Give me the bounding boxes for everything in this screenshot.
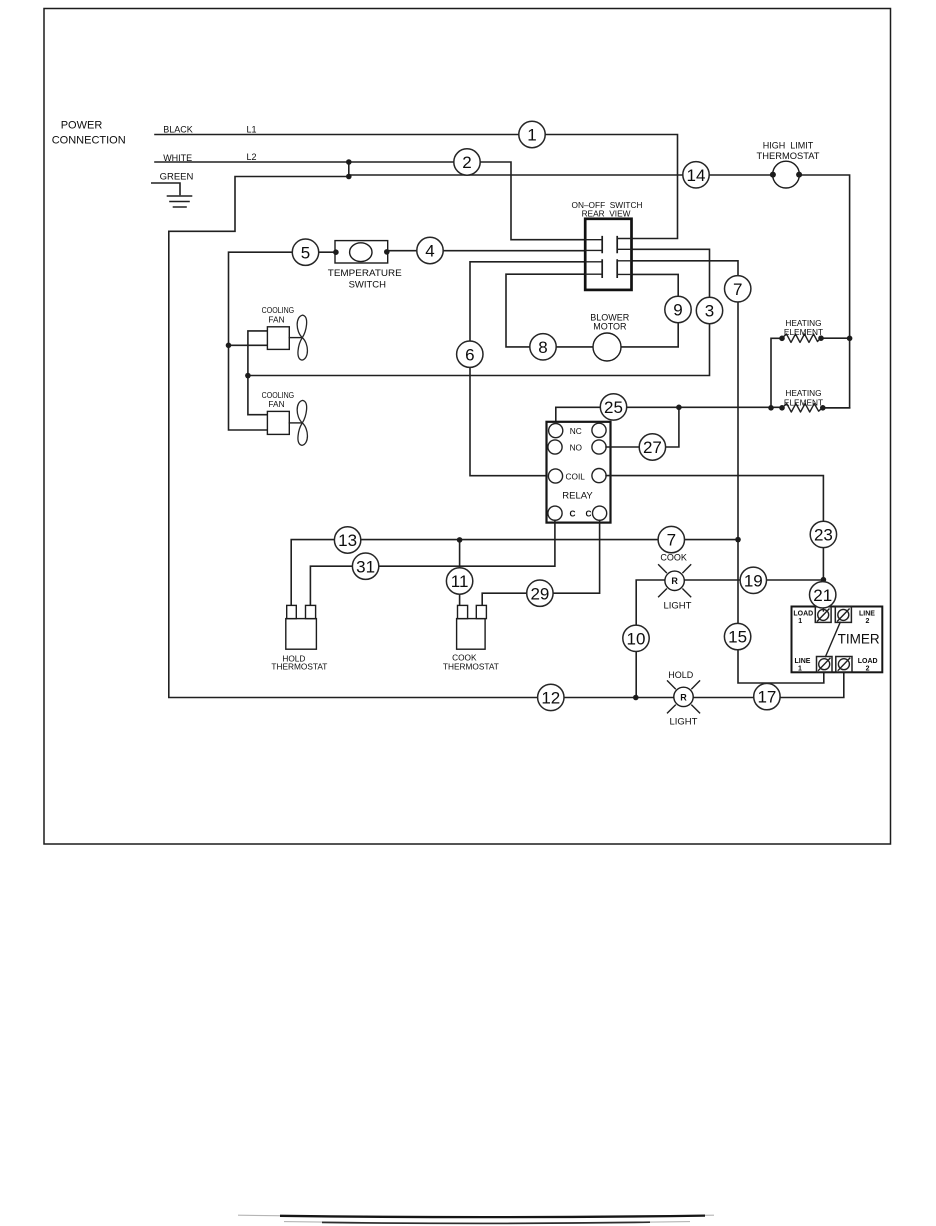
svg-text:LIGHT: LIGHT <box>670 717 698 728</box>
node high limit left terminal <box>770 172 776 178</box>
svg-text:23: 23 <box>814 526 833 545</box>
svg-text:BLACK: BLACK <box>163 125 193 135</box>
wire cooling fan 1 lower lead <box>229 344 268 346</box>
heating element top right lead <box>821 337 850 339</box>
svg-text:27: 27 <box>643 438 662 457</box>
svg-text:TIMER: TIMER <box>838 632 880 647</box>
svg-text:HIGH LIMIT: HIGH LIMIT <box>763 140 814 150</box>
wire cook thermostat left feed through circle 11 <box>459 540 461 605</box>
wire green lead <box>152 183 180 195</box>
callout 4 <box>417 237 443 263</box>
svg-text:21: 21 <box>813 586 832 605</box>
timer screw terminal line1 <box>817 657 833 673</box>
node fan1 tap <box>226 343 232 349</box>
svg-text:RELAY: RELAY <box>562 491 593 502</box>
on-off switch contact stubs <box>586 239 632 275</box>
node heating left rail junction <box>768 405 774 411</box>
callout 31 <box>352 553 378 579</box>
svg-text:SWITCH: SWITCH <box>349 279 387 290</box>
svg-text:10: 10 <box>627 629 646 648</box>
node heating top left terminal <box>779 336 785 342</box>
svg-text:TEMPERATURE: TEMPERATURE <box>328 268 402 279</box>
svg-text:LOAD: LOAD <box>858 658 878 665</box>
node hold light branch junction <box>633 695 639 701</box>
cooling fan 2 propeller <box>297 400 307 445</box>
svg-text:8: 8 <box>538 338 547 357</box>
node heating bottom right terminal <box>820 405 826 411</box>
node timer load1 branch junction <box>821 577 827 583</box>
svg-text:1: 1 <box>798 618 802 625</box>
heating element left rail <box>771 338 782 408</box>
svg-text:COIL: COIL <box>566 471 586 481</box>
cook thermostat terminal right <box>476 605 486 618</box>
svg-text:19: 19 <box>744 571 763 590</box>
hold indicator light lamp <box>674 687 693 706</box>
heating element bottom right lead <box>823 407 850 409</box>
node x738 junction <box>735 537 741 543</box>
callout 21 <box>810 582 836 608</box>
svg-text:13: 13 <box>338 531 357 550</box>
svg-text:17: 17 <box>757 688 776 707</box>
wire neutral branch left down to bottom run and up to timer load2 <box>169 177 844 698</box>
callout 11 <box>446 568 472 594</box>
temperature switch box <box>335 241 388 263</box>
node temp switch right terminal <box>384 249 390 255</box>
svg-text:GREEN: GREEN <box>160 172 194 183</box>
node L2 upper junction <box>346 159 352 165</box>
cook thermostat body <box>457 619 486 650</box>
cook thermostat terminal left <box>458 605 468 618</box>
svg-text:L2: L2 <box>246 152 256 162</box>
svg-text:7: 7 <box>733 280 742 299</box>
on-off switch pole bars <box>602 236 617 278</box>
frame border <box>44 9 891 845</box>
scan artifact line upper faint <box>238 1215 714 1217</box>
relay terminal NC left <box>549 424 563 438</box>
svg-text:9: 9 <box>673 301 682 320</box>
node temp switch left terminal <box>333 249 339 255</box>
svg-text:5: 5 <box>301 243 310 262</box>
callout 15 <box>724 623 750 649</box>
wire neutral right to high limit thermostat and heating element right rail <box>349 175 850 408</box>
wire switch row4 left down to blower motor left via circle 8 <box>506 274 593 347</box>
svg-text:29: 29 <box>530 584 549 603</box>
svg-text:15: 15 <box>728 628 747 647</box>
relay terminal C left <box>548 506 562 520</box>
callout 7 top <box>725 276 751 302</box>
timer screw terminal load2 <box>836 657 852 673</box>
callout 9 <box>665 296 691 322</box>
svg-text:3: 3 <box>705 302 714 321</box>
scan artifact line lower faint <box>284 1222 690 1223</box>
high limit thermostat disc <box>773 161 800 188</box>
callout 8 <box>530 334 556 360</box>
svg-text:LOAD: LOAD <box>793 611 813 618</box>
wire L2 white line to switch row1 left <box>155 162 586 240</box>
svg-text:NO: NO <box>570 442 583 452</box>
relay terminal COIL right <box>592 469 606 483</box>
svg-text:FAN: FAN <box>268 399 284 409</box>
wire switch row3 right down through circle 7 circle 15 to timer line1 <box>632 261 824 683</box>
svg-text:NC: NC <box>570 426 582 436</box>
svg-text:2: 2 <box>865 618 869 625</box>
callout 1 <box>519 121 545 147</box>
svg-text:THERMOSTAT: THERMOSTAT <box>757 151 821 161</box>
wire cooling fan 1 upper lead down to fan 2 upper lead <box>248 331 268 415</box>
svg-text:4: 4 <box>425 242 434 261</box>
svg-text:2: 2 <box>866 665 870 672</box>
svg-text:12: 12 <box>541 689 560 708</box>
svg-text:COOK: COOK <box>660 553 687 563</box>
resistor heating element bottom <box>782 404 823 412</box>
svg-text:MOTOR: MOTOR <box>593 321 627 331</box>
hold indicator light rays <box>668 681 700 713</box>
svg-text:LIGHT: LIGHT <box>664 601 692 612</box>
svg-text:THERMOSTAT: THERMOSTAT <box>443 662 499 672</box>
callout 12 <box>538 684 564 710</box>
svg-text:11: 11 <box>451 572 469 591</box>
wire switch row4 right down through circle 9 to blower motor right <box>621 274 678 347</box>
cooling fan 2 box <box>267 411 289 434</box>
svg-text:WHITE: WHITE <box>163 153 192 163</box>
wire relay C left down through circle 31 to hold thermostat right <box>310 520 555 605</box>
callout 3 <box>696 297 722 323</box>
svg-text:2: 2 <box>462 153 471 172</box>
svg-text:R: R <box>671 576 678 586</box>
resistor heating element top <box>782 334 821 342</box>
cooling fan 1 box <box>267 327 289 350</box>
node heating right rail junction <box>847 336 853 342</box>
wire hold thermostat left feed through circle 13 to node at x738 <box>291 540 738 606</box>
callout 25 <box>600 394 626 420</box>
svg-text:C: C <box>570 509 576 519</box>
svg-text:HOLD: HOLD <box>668 670 694 680</box>
callout 10 <box>623 625 649 651</box>
svg-text:31: 31 <box>356 557 375 576</box>
callout 29 <box>527 580 553 606</box>
ground symbol <box>168 196 192 207</box>
wire relay NC up to circle 25 run and heating elements left rail <box>556 407 782 422</box>
svg-text:6: 6 <box>465 345 474 364</box>
callout 27 <box>639 434 665 460</box>
relay terminal C right <box>593 506 607 520</box>
wire relay COIL right to circle 23 circle 21 timer load1 <box>606 476 823 611</box>
cooling fan 1 hub stub <box>289 337 302 339</box>
wire L1 black line to switch row1 right <box>155 135 678 239</box>
relay terminal COIL left <box>548 469 562 483</box>
node L2 lower junction <box>346 174 352 180</box>
svg-text:1: 1 <box>798 665 802 672</box>
callout 5 <box>292 239 318 265</box>
node high limit right terminal <box>796 172 802 178</box>
temperature switch disc <box>350 243 372 262</box>
wire relay C right down through circle 29 to cook thermostat right <box>482 520 599 605</box>
cook indicator light lamp <box>665 571 684 590</box>
timer internal diagonal line2 to line1 <box>826 622 841 656</box>
callout 7 cook <box>658 526 684 552</box>
callout 17 <box>754 683 780 709</box>
svg-text:1: 1 <box>527 126 536 145</box>
callout 23 <box>810 521 836 547</box>
svg-text:CONNECTION: CONNECTION <box>52 135 126 147</box>
wire switch row2 right down through circle 3 and long run at y375 <box>248 249 710 375</box>
relay box <box>547 422 611 523</box>
hold thermostat terminal right <box>306 605 316 618</box>
callout 14 <box>683 162 709 188</box>
on-off switch box <box>585 219 631 290</box>
svg-text:C: C <box>586 509 592 519</box>
timer screw terminal load1 <box>815 607 831 623</box>
cooling fan 2 hub stub <box>289 422 302 424</box>
scan artifact line upper dark <box>280 1216 705 1218</box>
relay terminal NO left <box>548 440 562 454</box>
svg-text:LINE: LINE <box>795 658 811 665</box>
cook indicator light rays <box>659 565 691 597</box>
callout 19 <box>740 567 766 593</box>
wire relay NO right to circle 27 up to node <box>606 407 679 447</box>
scan artifact line lower dark <box>322 1222 650 1223</box>
callout 2 <box>454 149 480 175</box>
wire switch row3 left down through circle 6 to relay coil left <box>470 262 586 476</box>
svg-text:POWER: POWER <box>61 120 103 132</box>
svg-text:FAN: FAN <box>268 314 284 324</box>
relay terminal NC right <box>592 423 606 437</box>
svg-text:L1: L1 <box>246 125 256 135</box>
relay terminal NO right <box>592 440 606 454</box>
svg-text:ELEMENT: ELEMENT <box>784 327 823 337</box>
svg-text:THERMOSTAT: THERMOSTAT <box>271 662 327 672</box>
hold thermostat body <box>286 619 317 650</box>
wire cook light left down through circle 10 to bottom run <box>636 580 823 698</box>
svg-text:7: 7 <box>667 531 676 550</box>
wire stub into timer load1 screw <box>822 606 824 611</box>
wire neutral stub between junction dots <box>348 162 350 177</box>
node NO-NC junction <box>676 405 682 411</box>
svg-text:R: R <box>680 692 687 702</box>
wire left rail to temperature switch and cooling fans <box>229 252 336 430</box>
timer box <box>792 607 883 673</box>
node heating bottom left terminal <box>779 405 785 411</box>
timer screw terminal line2 <box>835 607 851 623</box>
svg-text:LINE: LINE <box>859 611 875 618</box>
svg-text:14: 14 <box>687 166 706 185</box>
cooling fan 1 propeller <box>297 315 307 360</box>
node cook feed junction <box>457 537 463 543</box>
wire temp switch right through circle 4 to switch row2 left <box>388 250 586 252</box>
svg-text:REAR VIEW: REAR VIEW <box>582 209 631 219</box>
blower motor <box>593 333 621 361</box>
callout 13 <box>334 527 360 553</box>
callout 6 <box>457 341 483 367</box>
node heating top right terminal <box>818 335 824 341</box>
svg-text:25: 25 <box>604 398 623 417</box>
hold thermostat terminal left <box>287 605 297 618</box>
svg-text:ELEMENT: ELEMENT <box>784 397 823 407</box>
node fan rail tap <box>245 373 251 379</box>
